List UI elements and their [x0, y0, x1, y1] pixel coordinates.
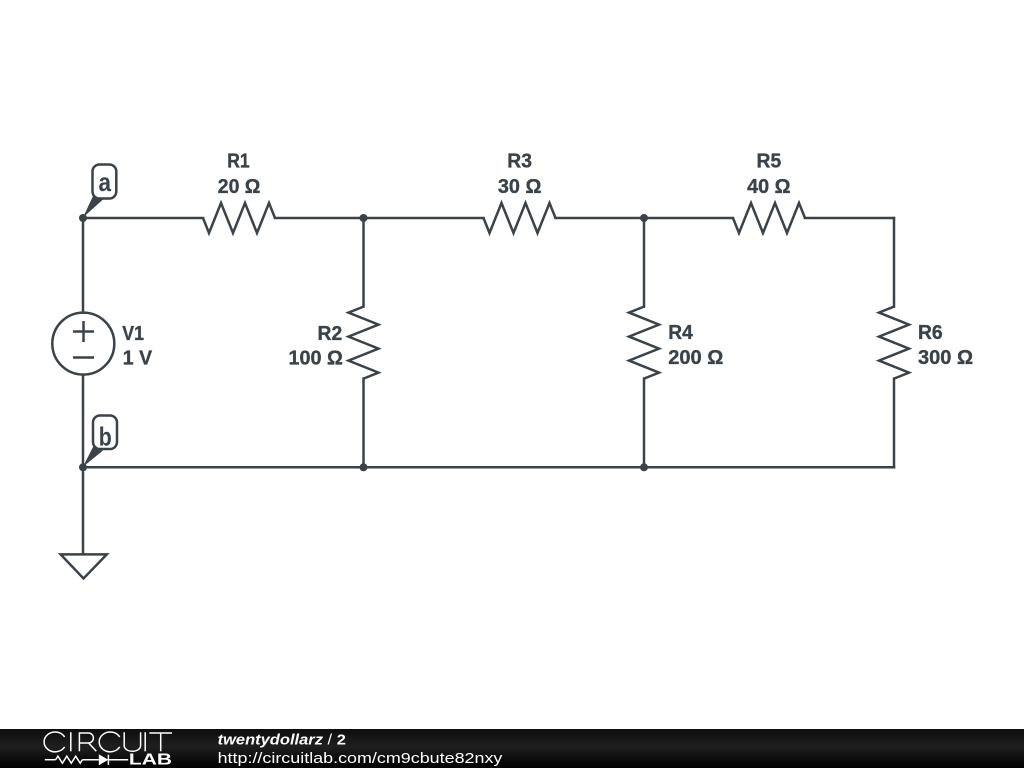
voltage source V1 circle [52, 313, 114, 375]
svg-text:R3: R3 [507, 150, 532, 173]
junction node b dot [79, 463, 87, 471]
wire left: node a down to V1 top [82, 218, 85, 313]
svg-text:LAB: LAB [129, 751, 172, 768]
svg-text:V1: V1 [122, 322, 144, 345]
svg-text:R5: R5 [757, 150, 782, 173]
V1 plus sign [73, 321, 94, 342]
svg-text:200 Ω: 200 Ω [668, 346, 723, 369]
resistor R2 [349, 307, 379, 379]
svg-text:300 Ω: 300 Ω [918, 346, 973, 369]
svg-text:40 Ω: 40 Ω [747, 175, 791, 198]
resistor R3 [484, 203, 556, 233]
wire: R4 down to bottom [643, 379, 646, 468]
junction node1 bottom dot [360, 463, 368, 471]
svg-text:http://circuitlab.com/cm9cbute: http://circuitlab.com/cm9cbute82nxy [218, 750, 503, 767]
junction node2 bottom dot [640, 463, 648, 471]
svg-text:30 Ω: 30 Ω [498, 175, 542, 198]
svg-text:a: a [99, 167, 112, 197]
svg-text:twentydollarz / 2: twentydollarz / 2 [218, 732, 346, 749]
logo resistor-diode glyph [45, 755, 128, 765]
wire: R6 down to bottom right corner [893, 379, 896, 468]
svg-text:R6: R6 [918, 321, 943, 344]
junction node2 top dot [640, 214, 648, 222]
svg-text:R1: R1 [227, 150, 250, 173]
wire top: R1 to node 1 and on to R3 [275, 217, 484, 220]
wire: R2 down to bottom [362, 379, 365, 468]
svg-text:b: b [99, 422, 112, 452]
svg-text:1 V: 1 V [123, 346, 153, 369]
wire top: R3 to node 2 and on to R5 [556, 217, 734, 220]
svg-text:20 Ω: 20 Ω [218, 175, 261, 198]
svg-text:100 Ω: 100 Ω [289, 346, 343, 369]
resistor R5 [733, 203, 805, 233]
svg-text:R2: R2 [318, 322, 343, 345]
resistor R1 [203, 203, 275, 233]
wire: node b down to ground [82, 467, 85, 554]
resistor R4 [629, 307, 659, 379]
wire: node1 down to R2 [362, 218, 365, 307]
wire top: node a to R1 [83, 217, 203, 220]
node label a [83, 165, 116, 218]
wire bottom rail [83, 466, 894, 469]
svg-text:R4: R4 [668, 321, 693, 344]
junction node a dot [79, 214, 87, 222]
wire left: V1 bottom down to node b [82, 375, 85, 468]
resistor R6 [879, 307, 909, 379]
wire top: R5 to right corner [805, 217, 894, 220]
V1 minus sign [73, 356, 94, 359]
ground [61, 554, 107, 578]
wire: node2 down to R4 [643, 218, 646, 307]
junction node1 top dot [360, 214, 368, 222]
wire: right corner down to R6 [893, 218, 896, 307]
node label b [83, 416, 117, 467]
CircuitLab logo CIRCUIT (drawn) [44, 732, 172, 752]
